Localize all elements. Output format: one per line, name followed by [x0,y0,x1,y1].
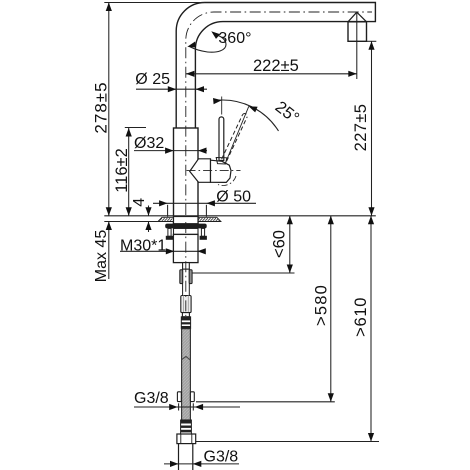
360 arrowhead top [211,31,220,39]
svg-text:Ø32: Ø32 [134,135,164,152]
nozzle extension line [356,12,358,79]
dia50 extension lines [167,205,169,217]
svg-text:360°: 360° [218,30,251,47]
arrow 227 bottom (down) [368,207,374,216]
dimension line Max45 [108,222,110,280]
dimension line dia50 [153,202,256,204]
nozzle bottom extension [367,40,376,42]
arrow 222 left (left-pointing) [186,71,195,77]
shank through flange [174,217,199,224]
arrow 222 right (right-pointing) [348,71,357,77]
valve body hexagon [190,159,211,183]
svg-text:G3/8: G3/8 [134,390,169,407]
arrow G38u left (right-pointing) [169,404,178,410]
svg-text:278±5: 278±5 [92,81,111,133]
gt610 bottom reference [196,441,379,443]
arrow dim4 top (down) [145,207,151,216]
svg-text:227±5: 227±5 [352,104,370,152]
lever tilted (dashed phantom) [222,114,248,162]
svg-text:>610: >610 [352,297,370,337]
neck below nut [183,263,190,270]
bottom G3/8 end piece [179,444,193,470]
svg-text:Max 45: Max 45 [93,230,110,283]
svg-text:<60: <60 [271,230,289,258]
svg-text:4: 4 [131,198,148,207]
svg-text:G3/8: G3/8 [204,448,239,465]
braid mark on hose [182,357,190,360]
arrow G38u right (left-pointing) [195,404,204,410]
hose top collar bands [181,317,190,329]
svg-text:116±2: 116±2 [113,148,131,193]
arrow 278 top (up) [106,3,112,12]
arrow dia50 left (right-pointing) [159,200,168,206]
dimension line 222 [186,73,357,75]
cartridge dash-dot circle arc [218,176,236,186]
lever handle (upright) [219,117,224,161]
svg-text:Ø 50: Ø 50 [216,188,251,205]
arrow lt60 bottom (down) [287,265,293,274]
svg-text:222±5: 222±5 [253,57,299,75]
25 arc arrowhead right [249,106,258,112]
neck below coupling [182,313,189,317]
spout pipe outline [176,3,375,129]
dimension line gt610 [370,216,372,442]
pipe centerline (dash-dot) [186,12,372,215]
lower centerline (dash-dot) [185,222,187,316]
aerator nozzle [348,12,367,41]
arrow dia32 right (left-pointing) [198,148,207,154]
360 arrowhead bottom [187,42,196,48]
dimension line G38 lower [164,463,239,465]
lever socket [216,158,227,165]
hose bottom collar bands [181,420,192,434]
mounting nut M30 [173,234,198,262]
cartridge cap [211,160,232,182]
coupling nut [181,296,191,313]
flange bottom extension line [104,221,158,223]
hose mid fitting G3/8 tabs [177,392,194,402]
bottom nut [177,434,196,444]
extension line body top [125,127,146,129]
arrow gt580 bottom (down) [328,393,334,402]
arrow 116 bottom (down) [126,207,132,216]
arrow gt610 top (up) [368,216,374,225]
braided hose [182,329,191,420]
lever tilted axis line [225,106,249,163]
lever vertical axis extension [221,97,223,115]
svg-text:M30*1: M30*1 [120,238,166,255]
dimension line 278 [108,3,110,216]
top extension line y=2.5 [104,2,205,4]
25 arc arrowhead left [213,98,222,104]
arrow dia25 left (right-pointing) [168,86,177,92]
25 degree arc [216,100,279,131]
arrow dia50 right (left-pointing) [206,200,215,206]
valve body centerline [187,170,241,172]
dimension line gt580 [330,216,332,402]
arrow dia32 left (right-pointing) [165,148,174,154]
shank between gasket and nut [174,228,199,234]
dimension line lt60 [289,216,291,273]
deck reference line [104,215,376,217]
arrow dia25 right (left-pointing) [196,86,205,92]
arrow 227 top (up) [368,41,374,50]
dimension 4 ticks [148,206,150,216]
arrow gt610 bottom (down) [368,433,374,442]
arrow G38l right (left-pointing) [193,461,202,467]
arrow M30 left (right-pointing) [166,248,175,254]
arrow G38l left (right-pointing) [170,461,179,467]
escutcheon flange (hatched section) [158,217,221,222]
connector with side tabs [180,269,192,295]
dimension line 227 [371,41,373,216]
mounting studs [166,228,206,239]
arrow lt60 top (up) [287,216,293,225]
arrow M30 right (left-pointing) [197,248,206,254]
dimension line M30 [120,250,206,252]
dimension line dia25 [136,88,207,90]
dimension line 116 [128,128,130,216]
svg-text:Ø 25: Ø 25 [135,71,170,88]
arrow Max45 (up) [106,222,112,231]
gt580 bottom reference [196,401,335,403]
gasket bar [165,224,207,229]
body column Ø32 [174,128,199,224]
360 degree swivel arrow [189,34,226,52]
dimension line G38 upper [134,406,240,408]
lt60 bottom reference [192,272,295,274]
arrow gt580 top (up) [328,216,334,225]
svg-text:>580: >580 [312,284,330,326]
arrow dim4 bottom (up) [145,222,151,231]
dimension line dia32 [134,150,207,152]
arrow 116 top (up) [126,128,132,137]
G38 upper extension ticks [178,403,180,410]
arrow 278 bottom (down) [106,207,112,216]
